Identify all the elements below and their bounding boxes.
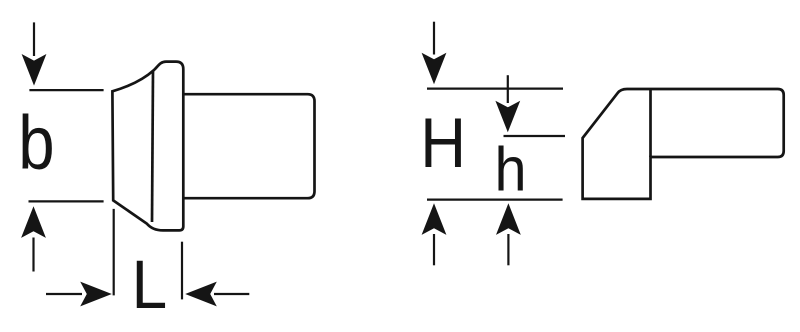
svg-text:b: b bbox=[18, 101, 54, 186]
svg-text:H: H bbox=[420, 104, 466, 183]
dimension h: middle extension line bbox=[504, 135, 566, 137]
dimension h: bottom up-arrowhead bbox=[496, 203, 521, 235]
dimension b: top arrow shaft bbox=[33, 22, 35, 56]
shank rectangle (front view) bbox=[184, 94, 315, 198]
svg-text:L: L bbox=[132, 247, 168, 324]
dimension h: bottom up-arrow shaft bbox=[507, 234, 509, 265]
dimension b: top extension line bbox=[29, 89, 103, 91]
tool head/shank boundary line bbox=[649, 89, 652, 157]
dimension H: top arrow shaft bbox=[433, 22, 435, 55]
dimension H: bottom up-arrow shaft bbox=[433, 234, 435, 265]
dimension L: right extension line bbox=[181, 242, 183, 300]
dimension H: top arrowhead bbox=[422, 53, 447, 85]
dimension L: right arrow shaft bbox=[214, 293, 249, 295]
flange outline (front view of insert head) bbox=[112, 62, 183, 231]
dimension h: top arrow shaft bbox=[507, 75, 509, 103]
dimension H: bottom up-arrowhead bbox=[422, 203, 447, 235]
dimension h: top arrowhead bbox=[495, 101, 520, 133]
dimension H/h: bottom extension line bbox=[427, 199, 563, 201]
dimension L: left extension line bbox=[113, 209, 115, 296]
tool side-view outline bbox=[583, 89, 784, 199]
dimension L: right arrowhead (points left) bbox=[185, 282, 217, 307]
dimension b: bottom arrowhead bbox=[21, 206, 46, 238]
dimension H: top extension line bbox=[427, 87, 563, 89]
dimension L: left arrow shaft bbox=[46, 293, 82, 295]
dimension b: bottom extension line bbox=[29, 200, 104, 202]
dimension L: left arrowhead (points right) bbox=[80, 282, 112, 307]
dimension b: top arrowhead bbox=[22, 54, 47, 86]
flange inner cone edge line bbox=[152, 71, 153, 223]
svg-text:h: h bbox=[495, 135, 527, 204]
dimension b: bottom arrow shaft bbox=[32, 238, 34, 272]
